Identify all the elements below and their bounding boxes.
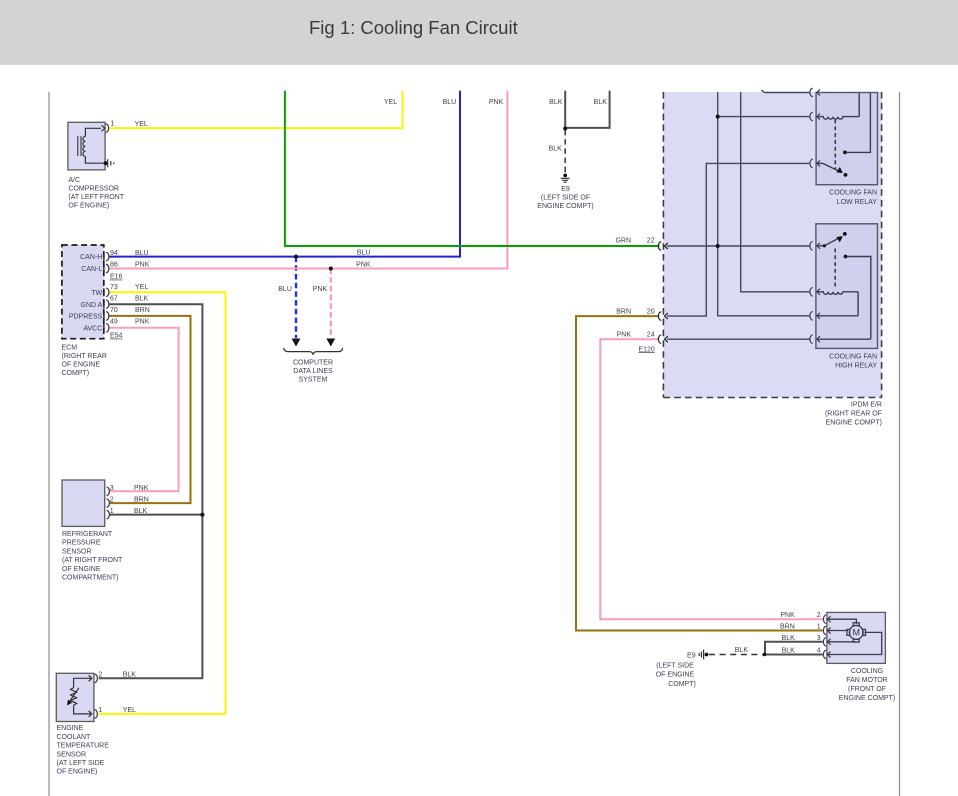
svg-text:PNK: PNK [780,612,795,619]
svg-text:24: 24 [647,332,655,339]
svg-text:LOW RELAY: LOW RELAY [837,199,878,206]
svg-text:BLK: BLK [782,647,796,654]
svg-text:Fig 1: Cooling Fan Circuit: Fig 1: Cooling Fan Circuit [309,17,518,38]
svg-text:BLK: BLK [594,99,608,106]
svg-text:BRN: BRN [780,624,795,631]
svg-text:4: 4 [817,647,821,654]
svg-text:3: 3 [817,635,821,642]
svg-text:1: 1 [111,121,115,128]
svg-text:(FRONT OF: (FRONT OF [848,686,886,693]
svg-text:YEL: YEL [123,707,136,714]
svg-text:SENSOR: SENSOR [62,548,92,555]
svg-text:COMPUTER: COMPUTER [293,360,333,367]
svg-text:COOLING FAN: COOLING FAN [829,190,877,197]
svg-text:PRESSURE: PRESSURE [62,540,101,547]
svg-text:PNK: PNK [135,319,150,326]
svg-text:(RIGHT REAR: (RIGHT REAR [62,353,107,360]
svg-text:HIGH RELAY: HIGH RELAY [835,362,877,369]
svg-text:E16: E16 [110,274,123,281]
svg-text:(LEFT SIDE OF: (LEFT SIDE OF [541,195,590,202]
svg-text:COMPARTMENT): COMPARTMENT) [62,575,119,582]
svg-text:BLK: BLK [549,99,563,106]
svg-text:OF ENGINE: OF ENGINE [62,362,101,369]
svg-text:73: 73 [110,284,118,291]
svg-text:PNK: PNK [313,286,328,293]
svg-text:BLK: BLK [134,508,148,515]
svg-text:YEL: YEL [135,121,148,128]
svg-text:BLK: BLK [549,146,563,153]
svg-text:49: 49 [110,319,118,326]
svg-text:BLK: BLK [123,672,137,679]
svg-text:CAN-H: CAN-H [80,254,102,261]
svg-text:70: 70 [110,307,118,314]
svg-text:SYSTEM: SYSTEM [299,376,328,383]
svg-text:PNK: PNK [489,99,504,106]
svg-text:OF ENGINE: OF ENGINE [62,566,101,573]
svg-text:BLK: BLK [135,296,149,303]
svg-text:BLU: BLU [357,250,371,257]
svg-text:ENGINE COMPT): ENGINE COMPT) [537,203,593,210]
svg-text:COOLING FAN: COOLING FAN [829,353,877,360]
svg-text:BLK: BLK [735,647,749,654]
svg-text:REFRIGERANT: REFRIGERANT [62,531,113,538]
svg-text:A/C: A/C [68,177,80,184]
svg-text:GND A: GND A [81,302,103,309]
svg-text:2: 2 [98,672,102,679]
svg-text:20: 20 [647,309,655,316]
svg-text:1: 1 [110,508,114,515]
svg-text:COMPT): COMPT) [62,370,90,377]
svg-text:COOLANT: COOLANT [57,734,92,741]
svg-text:PNK: PNK [134,485,149,492]
svg-text:PNK: PNK [356,262,371,269]
svg-text:86: 86 [110,262,118,269]
svg-text:PNK: PNK [617,332,632,339]
svg-text:67: 67 [110,296,118,303]
svg-text:FAN MOTOR: FAN MOTOR [846,677,887,684]
svg-text:COOLING: COOLING [851,668,883,675]
svg-text:BLU: BLU [278,286,292,293]
svg-text:22: 22 [647,238,655,245]
svg-text:BRN: BRN [134,497,149,504]
svg-text:BRN: BRN [616,309,631,316]
svg-text:GRN: GRN [615,238,631,245]
svg-text:OF ENGINE: OF ENGINE [656,672,695,679]
svg-text:1: 1 [817,624,821,631]
svg-text:(AT RIGHT FRONT: (AT RIGHT FRONT [62,557,123,564]
svg-text:E9: E9 [561,186,570,193]
svg-text:(LEFT SIDE: (LEFT SIDE [656,663,694,670]
svg-text:94: 94 [110,250,118,257]
svg-text:PDPRESS: PDPRESS [69,314,103,321]
svg-text:(AT LEFT FRONT: (AT LEFT FRONT [68,194,124,201]
svg-text:COMPRESSOR: COMPRESSOR [68,186,119,193]
svg-text:ENGINE: ENGINE [57,725,84,732]
svg-text:M: M [852,628,860,638]
svg-text:E9: E9 [687,652,696,659]
svg-text:(AT LEFT SIDE: (AT LEFT SIDE [57,760,105,767]
svg-text:IPDM E/R: IPDM E/R [851,402,882,409]
svg-text:ENGINE COMPT): ENGINE COMPT) [826,420,882,427]
svg-text:ECM: ECM [62,345,78,352]
svg-text:TW: TW [91,290,102,297]
svg-text:E54: E54 [110,333,123,340]
svg-text:ENGINE COMPT): ENGINE COMPT) [839,695,895,702]
svg-text:OF ENGINE): OF ENGINE) [68,203,109,210]
svg-text:COMPT): COMPT) [668,681,696,688]
svg-text:PNK: PNK [135,262,150,269]
svg-text:1: 1 [98,707,102,714]
svg-text:3: 3 [110,485,114,492]
svg-text:BRN: BRN [135,307,150,314]
svg-text:E120: E120 [638,346,654,353]
svg-text:BLK: BLK [782,635,796,642]
svg-text:TEMPERATURE: TEMPERATURE [57,743,110,750]
svg-text:SENSOR: SENSOR [57,751,87,758]
svg-text:YEL: YEL [384,99,397,106]
svg-text:2: 2 [110,497,114,504]
svg-text:2: 2 [817,612,821,619]
svg-text:OF ENGINE): OF ENGINE) [57,769,98,776]
svg-text:DATA LINES: DATA LINES [293,368,333,375]
svg-text:BLU: BLU [443,99,457,106]
svg-text:(RIGHT REAR OF: (RIGHT REAR OF [825,411,882,418]
svg-text:CAN-L: CAN-L [81,266,102,273]
svg-text:BLU: BLU [135,250,149,257]
svg-text:AVCC: AVCC [83,325,102,332]
svg-text:YEL: YEL [135,284,148,291]
